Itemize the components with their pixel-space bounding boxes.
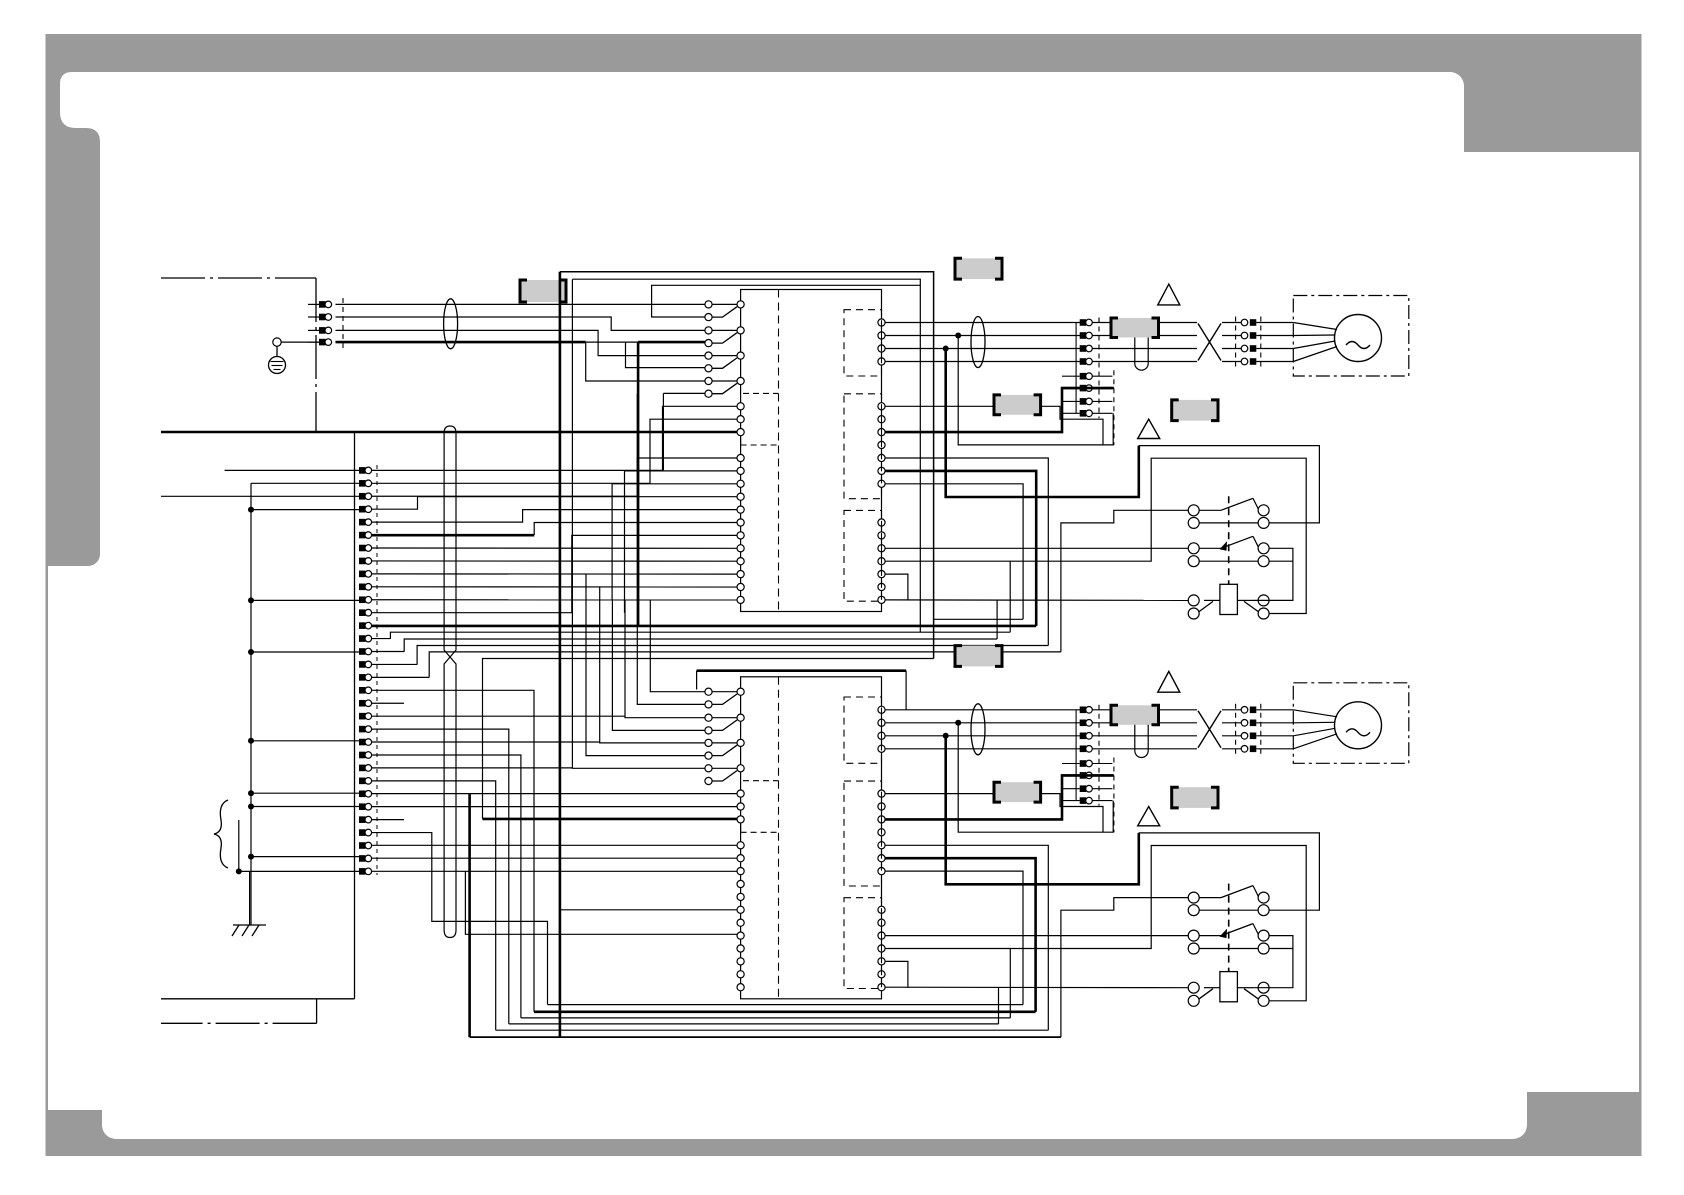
wire PE stub	[281, 341, 319, 343]
wire pin21 to lower bundle 4	[372, 729, 509, 1024]
wire bus branch 740.8	[251, 740, 359, 742]
wire contact row1 feed	[1061, 898, 1188, 1038]
wire contactor outer loop	[1139, 833, 1320, 910]
wire bus branch 509.6	[251, 509, 359, 511]
wire bundle 619	[934, 618, 1024, 620]
disconnect contact right	[1258, 982, 1269, 993]
connector pins motor end	[1241, 319, 1248, 326]
terminal column left	[737, 790, 744, 797]
dashed relay box 3	[844, 898, 882, 989]
wire switch 4b feed	[663, 392, 705, 394]
wire W548 to contact 2a	[885, 935, 1188, 937]
label gray tag motor cable	[1111, 318, 1159, 338]
wire pin10 straight	[372, 586, 737, 588]
connector dashed d	[1260, 704, 1262, 755]
motor M circle	[1335, 702, 1382, 749]
coil fuse box	[1220, 972, 1238, 1002]
ground earth symbol	[269, 357, 286, 374]
triangle warning 1	[1158, 671, 1180, 692]
wire contact row1 feed	[1061, 510, 1188, 652]
wire bottom bundle 4	[509, 1023, 999, 1025]
wire mains N bold	[336, 341, 586, 344]
wire pin14 hook	[372, 638, 391, 640]
coil fuse box	[1220, 584, 1238, 614]
triangle warning 1	[1158, 284, 1180, 305]
wire pin13 bold to bundle	[372, 625, 378, 628]
wire W484 loop	[885, 871, 1023, 1005]
wire pin28 stub	[372, 819, 404, 821]
wire bold contactor feed	[946, 349, 1139, 498]
connector pins mains feed	[308, 303, 319, 305]
wire motor V	[885, 335, 1197, 337]
wire bottom bundle bold	[534, 1010, 1036, 1013]
wire contacts right side link	[1253, 548, 1293, 600]
wire pin6 bold step to terminal 522	[372, 534, 535, 537]
dashed group separator a	[743, 392, 779, 394]
label gray tag PSU	[520, 280, 566, 302]
disconnect contact left	[1188, 595, 1199, 606]
cable shield oval mains	[444, 299, 458, 349]
wire left bus vertical	[250, 483, 252, 925]
label gray tag CN mid	[994, 395, 1041, 415]
wire to switch 1b via top link	[652, 285, 921, 317]
cable shield oval motor	[971, 704, 985, 755]
contactor contact 1b	[1188, 905, 1199, 916]
label gray tag motor cable	[1111, 705, 1159, 725]
connector boundary dashed b	[1113, 758, 1115, 833]
dashed relay box 1	[844, 697, 882, 763]
connector dashed c	[1235, 317, 1237, 368]
wire terminal 406 step link	[885, 406, 1103, 445]
wire W444 riser	[958, 336, 1113, 445]
triangle warning 2	[1138, 419, 1160, 438]
enclosure lower machine frame outline	[354, 432, 356, 999]
connector boundary dashed a	[1098, 318, 1100, 419]
wires into motor	[1293, 710, 1337, 717]
cable loop under label	[1135, 338, 1148, 371]
wire motor G	[885, 361, 1197, 363]
mechanical link dashed	[1228, 884, 1230, 972]
wire pin23 to lower bundle 3	[372, 755, 521, 1018]
wire descender x612.4	[612, 600, 705, 731]
interlock brace symbol	[214, 800, 228, 868]
connector boundary dashed b	[1113, 370, 1115, 445]
triangle warning 2	[1138, 807, 1160, 826]
ground PE terminal circle	[273, 338, 281, 346]
wire motor V	[885, 722, 1197, 724]
motor enclosure dash-dot	[1293, 296, 1409, 377]
switch S1	[705, 688, 712, 695]
contactor contact 2b	[1188, 943, 1199, 954]
contactor contact 2b	[1188, 556, 1199, 567]
wire mains L3	[336, 330, 705, 355]
wire pin4 to terminal 496	[372, 497, 737, 510]
dashed relay box 3	[844, 510, 882, 601]
node dot V	[955, 333, 961, 339]
wire bundle 2	[390, 632, 1010, 639]
wire pin32 straight terminal 871	[372, 870, 737, 872]
switch S4	[705, 765, 712, 772]
label gray tag CN top	[955, 646, 1002, 667]
node dot W	[943, 346, 949, 352]
wire crossover X	[1198, 711, 1221, 748]
wire terminal 483 L	[612, 484, 737, 600]
wire W484 loop	[885, 484, 1023, 620]
wire bold riser to bundle	[637, 342, 640, 626]
wire riser 997	[996, 600, 998, 639]
contactor contact 1b	[1188, 517, 1199, 528]
node bus dot 600.4	[248, 597, 254, 603]
wire pin8 straight	[372, 560, 737, 562]
wire bundle 5	[429, 652, 1061, 678]
wire W458 loop	[885, 845, 1048, 1030]
wire pin30 straight terminal 845	[372, 844, 737, 846]
dashed connector boundary mains	[342, 298, 344, 349]
wire W600 to coil circuit	[885, 986, 1188, 989]
switch S4	[705, 377, 712, 384]
node bus dot 793.2	[248, 790, 254, 796]
wire bold bundle drop	[468, 794, 471, 1038]
wire pin3 left	[161, 495, 359, 497]
wire W432 bold to aux	[885, 388, 1114, 432]
switch S2	[705, 714, 712, 721]
wire pin16 hook	[372, 663, 418, 665]
disconnect contact right	[1258, 595, 1269, 606]
wire W472 bold loop	[885, 471, 1036, 626]
wire W574 to W600 join	[885, 574, 908, 600]
wire top link B	[572, 279, 920, 632]
label gray tag right	[1172, 400, 1218, 421]
cable shield oval motor	[971, 317, 985, 368]
wire W472 bold loop	[885, 858, 1036, 1012]
wire tap to switch 4a	[586, 342, 705, 381]
connector dashed d	[1260, 317, 1262, 368]
wire riser 1010	[1009, 561, 1011, 632]
label gray tag right	[1172, 787, 1218, 808]
dashed divider	[778, 677, 780, 999]
wire W458 loop	[885, 458, 1048, 646]
connector pins left column	[359, 467, 366, 474]
wire pin17 hook	[372, 676, 430, 678]
dashed divider	[778, 290, 780, 612]
wire terminal 470 L	[625, 471, 738, 613]
wire motor W	[885, 348, 1197, 350]
wire pin12 to terminal 535	[372, 535, 737, 612]
wire bold mains feed top edge	[161, 431, 737, 434]
terminal column right	[878, 319, 885, 326]
switch S1	[705, 301, 712, 308]
wire pin27 straight terminal 806	[372, 806, 737, 808]
wire link A wrap to bold terminal 818	[483, 659, 934, 819]
wire pin26 straight terminal 793	[372, 793, 737, 795]
wire descender x650.3	[650, 600, 705, 692]
wire bus branch 856.6	[251, 856, 359, 858]
wire motor U	[885, 322, 1197, 324]
connector dashed c	[1235, 704, 1237, 755]
wire bus branch 806.5	[251, 806, 359, 808]
wire W432 bold to aux	[885, 775, 1114, 819]
wire terminal 406 step link	[885, 794, 1103, 833]
wire contacts right side link	[1253, 936, 1293, 988]
wire pin22 to switch 3a descender	[372, 741, 600, 743]
wire pin31 straight terminal 858	[372, 857, 737, 859]
control unit box	[741, 677, 882, 999]
wire descender x625	[625, 600, 705, 718]
wire descender to lower switch 4a	[572, 279, 705, 768]
wire descender x637.3	[637, 393, 705, 704]
dashed relay box 2	[844, 394, 882, 499]
motor enclosure dash-dot	[1293, 683, 1409, 764]
wire pin1 left	[225, 469, 359, 471]
connector pins motor mid	[1080, 707, 1087, 714]
dashed boundary right of pins	[376, 465, 378, 875]
wire tap to switch 3b	[626, 342, 705, 368]
wire pin29 to lower bundle 1	[372, 833, 548, 1005]
wire bundle 4	[417, 646, 1048, 665]
contactor contact 2a	[1188, 543, 1199, 554]
wire pin19 stub	[372, 702, 404, 704]
wire riser 997	[998, 988, 1000, 1024]
motor M circle	[1335, 315, 1382, 362]
contactor contact 1a	[1188, 892, 1199, 903]
label gray tag CN top	[955, 258, 1002, 279]
wire bundle bold	[376, 625, 1036, 628]
connector pins aux	[1062, 763, 1080, 765]
terminal column right	[878, 706, 885, 713]
wire lower terminal 909	[560, 909, 737, 911]
wire descender x586	[586, 574, 705, 756]
cable loop under label	[1135, 725, 1148, 758]
wire pin2 to terminal 419	[372, 419, 737, 483]
wire pin1 to terminal 406	[372, 406, 737, 470]
disconnect contact left	[1188, 982, 1199, 993]
mechanical link dashed	[1228, 496, 1230, 584]
connector pins aux	[1062, 375, 1080, 377]
wire W548 to contact 2a	[885, 547, 1188, 549]
dashed group separator b	[740, 437, 742, 446]
wire mains L2	[336, 317, 705, 330]
wire pin24 to switch 4a descender	[372, 767, 573, 769]
wire motor U	[885, 709, 1197, 711]
wire mains L1	[336, 303, 705, 305]
wire bold contactor feed	[946, 736, 1139, 885]
wire bottom bundle 1	[548, 1004, 1024, 1006]
connector boundary solid	[1075, 710, 1077, 801]
wire bundle 3	[404, 639, 997, 652]
wire drop to chassis ground	[249, 871, 251, 925]
switch S3	[705, 739, 712, 746]
wire bus branch 652	[251, 651, 359, 653]
wire top link A	[560, 272, 934, 659]
wire pin11 straight	[372, 599, 737, 601]
dashed group separator b	[740, 824, 742, 833]
wire pin3 to terminal 458	[372, 458, 737, 496]
label gray tag CN mid	[994, 782, 1041, 802]
wire bus branch 600.4	[251, 599, 359, 601]
contactor contact 1a	[1188, 505, 1199, 516]
wire riser 1010	[1009, 949, 1011, 1018]
contactor contact 2a	[1188, 930, 1199, 941]
enclosure machine frame dash-dot top	[161, 277, 316, 279]
wire contactor outer loop	[1139, 446, 1320, 523]
wire W561 inner loop	[885, 846, 1306, 1001]
wire pin9 straight	[372, 573, 737, 575]
node bus dot 652	[248, 649, 254, 655]
switch S2	[705, 327, 712, 334]
wires into motor	[1293, 323, 1337, 330]
wire crossover X	[1198, 324, 1221, 361]
connector boundary solid	[1075, 323, 1077, 414]
chassis ground symbol	[233, 924, 266, 926]
wire W600 to coil circuit	[885, 599, 1188, 602]
node bus dot 740.8	[248, 738, 254, 744]
node bus dot 806.5	[248, 804, 254, 810]
wire bus branch 793.2	[251, 792, 359, 794]
connector pins motor end	[1241, 707, 1248, 714]
node bus dot 856.6	[248, 854, 254, 860]
dashed group separator a	[743, 780, 779, 782]
wire pin15 hook	[372, 650, 405, 652]
wire pin18 to lower bundle bold feed	[372, 690, 534, 1012]
twisted pair cable loop	[444, 426, 456, 938]
connector pins motor mid	[1080, 319, 1087, 326]
wire W561 inner loop	[885, 458, 1306, 613]
wire bottom bundle 6	[470, 1036, 1061, 1038]
wire W574 to W600 join	[885, 961, 908, 987]
node dot pin32	[236, 868, 242, 874]
wire bottom bundle 5	[496, 1029, 1049, 1031]
node dot W	[943, 733, 949, 739]
wire pin7 straight	[372, 547, 737, 549]
wire outer frame left vertical	[662, 393, 664, 470]
wire motor W	[885, 735, 1197, 737]
node bus dot 509.6	[248, 507, 254, 513]
wire lower terminal 934	[465, 871, 737, 934]
control unit box	[741, 290, 882, 612]
connector boundary dashed a	[1098, 705, 1100, 806]
wire pin5 to terminal 509	[372, 510, 737, 523]
switch S3	[705, 352, 712, 359]
wire pin20 to switch 2a descender	[372, 715, 625, 717]
terminal column left	[737, 403, 744, 410]
wire descender x599.7	[600, 587, 705, 743]
dashed relay box 2	[844, 781, 882, 886]
dashed relay box 1	[844, 310, 882, 376]
node dot V	[955, 720, 961, 726]
wire lower box bold top bar	[696, 671, 698, 690]
wire bottom bundle 3	[521, 1017, 1010, 1019]
wire pin2 left	[251, 482, 359, 484]
wire W444 riser	[958, 723, 1113, 832]
wire pin25 to lower bundle 5	[372, 781, 496, 1030]
wire pin32 left	[239, 870, 359, 872]
wire bus bold vertical	[559, 272, 562, 1037]
wire motor G	[885, 748, 1197, 750]
